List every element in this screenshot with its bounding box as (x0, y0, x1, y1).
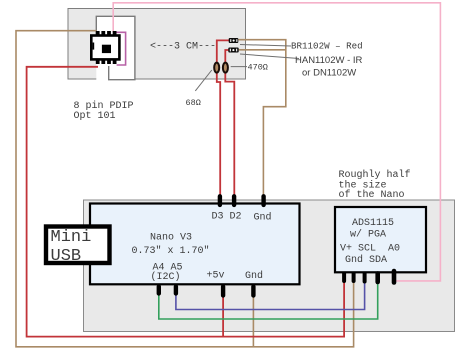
svg-text:w/ PGA: w/ PGA (350, 229, 386, 241)
inner white box around IC (96, 16, 135, 79)
ADS pin A0 (392, 271, 397, 283)
Nano pin Gnd top (261, 196, 265, 205)
svg-text:Gnd: Gnd (245, 270, 263, 282)
top sensor panel (68, 9, 246, 80)
bottom main panel (84, 200, 455, 332)
wire brown ground: IC pin1 to ADS Gnd around left/bottom (16, 31, 354, 347)
svg-text:V+ SCL A0: V+ SCL A0 (340, 244, 400, 255)
wire pink net (IC pin4 to ADS A0) (113, 3, 440, 281)
ADS pin SCL (363, 274, 367, 282)
resistor bead 68ohm left (214, 63, 219, 73)
wire brown ground: LED2 branch (239, 49, 286, 51)
resistor bead 68ohm right (223, 63, 228, 73)
Nano pin +5v (221, 287, 225, 296)
svg-text:Opt 101: Opt 101 (74, 111, 116, 122)
svg-text:470Ω: 470Ω (248, 63, 268, 73)
ADS pin Gnd (352, 274, 356, 282)
Nano pin A5 (174, 287, 178, 294)
svg-text:HAN1102W - IR: HAN1102W - IR (295, 55, 363, 66)
LED D2 IR (228, 48, 238, 53)
ADS1115 board (335, 207, 426, 272)
wire red power: IC pin to ADS V+ around left/bottom (27, 67, 345, 337)
svg-text:Gnd: Gnd (254, 212, 272, 224)
ADS pin SDA (375, 274, 380, 283)
svg-text:Roughly half: Roughly half (339, 169, 411, 181)
wire brown ground: Nano Gnd bottom drop (252, 295, 254, 347)
svg-text:(I2C): (I2C) (151, 271, 181, 283)
wire red D2 (225, 72, 234, 195)
Nano pin D2 (232, 196, 236, 205)
svg-text:or DN1102W: or DN1102W (302, 68, 356, 79)
svg-text:of the Nano: of the Nano (339, 189, 405, 201)
svg-text:D3 D2: D3 D2 (212, 212, 242, 223)
leader line 470 ohm (231, 66, 247, 68)
Mini USB connector (46, 227, 110, 267)
wire red power: Nano +5v drop (222, 295, 224, 337)
svg-text:ADS1115: ADS1115 (352, 218, 394, 229)
leader line HAN1102W (240, 54, 299, 59)
svg-text:Mini: Mini (51, 228, 92, 247)
leader line 68 ohm (195, 70, 212, 91)
op-amp U1 OPT101 IC (91, 31, 119, 64)
wire red bead1 to LED1 (217, 40, 229, 62)
wire green I2C SDA (159, 282, 378, 319)
svg-text:Nano V3: Nano V3 (150, 233, 192, 244)
svg-text:BR1102W – Red: BR1102W – Red (291, 40, 363, 51)
Nano pin A4 (157, 287, 161, 294)
Nano pin D3 (218, 196, 222, 205)
wire red bead2 to LED2 (225, 50, 229, 62)
wire blue I2C SCL (176, 281, 365, 310)
IC pins bottom (96, 59, 100, 64)
svg-text:Gnd SDA: Gnd SDA (345, 254, 387, 266)
svg-text:+5v: +5v (207, 271, 225, 282)
svg-text:<---3 CM---: <---3 CM--- (150, 41, 216, 52)
purple loop wire at IC (115, 32, 126, 65)
svg-text:68Ω: 68Ω (186, 98, 201, 108)
Nano pin Gnd bottom (251, 287, 255, 296)
ADS pin V+ (342, 274, 346, 282)
wire red D3 (217, 72, 220, 195)
LED D1 red (229, 38, 239, 43)
svg-text:0.73" x 1.70": 0.73" x 1.70" (132, 245, 210, 257)
svg-text:USB: USB (51, 247, 82, 266)
leader line BR1102W (240, 45, 291, 47)
IC pins top (96, 31, 100, 36)
wire brown ground: LED1 to Nano Gnd top (238, 40, 286, 195)
Nano V3 board (90, 204, 300, 285)
